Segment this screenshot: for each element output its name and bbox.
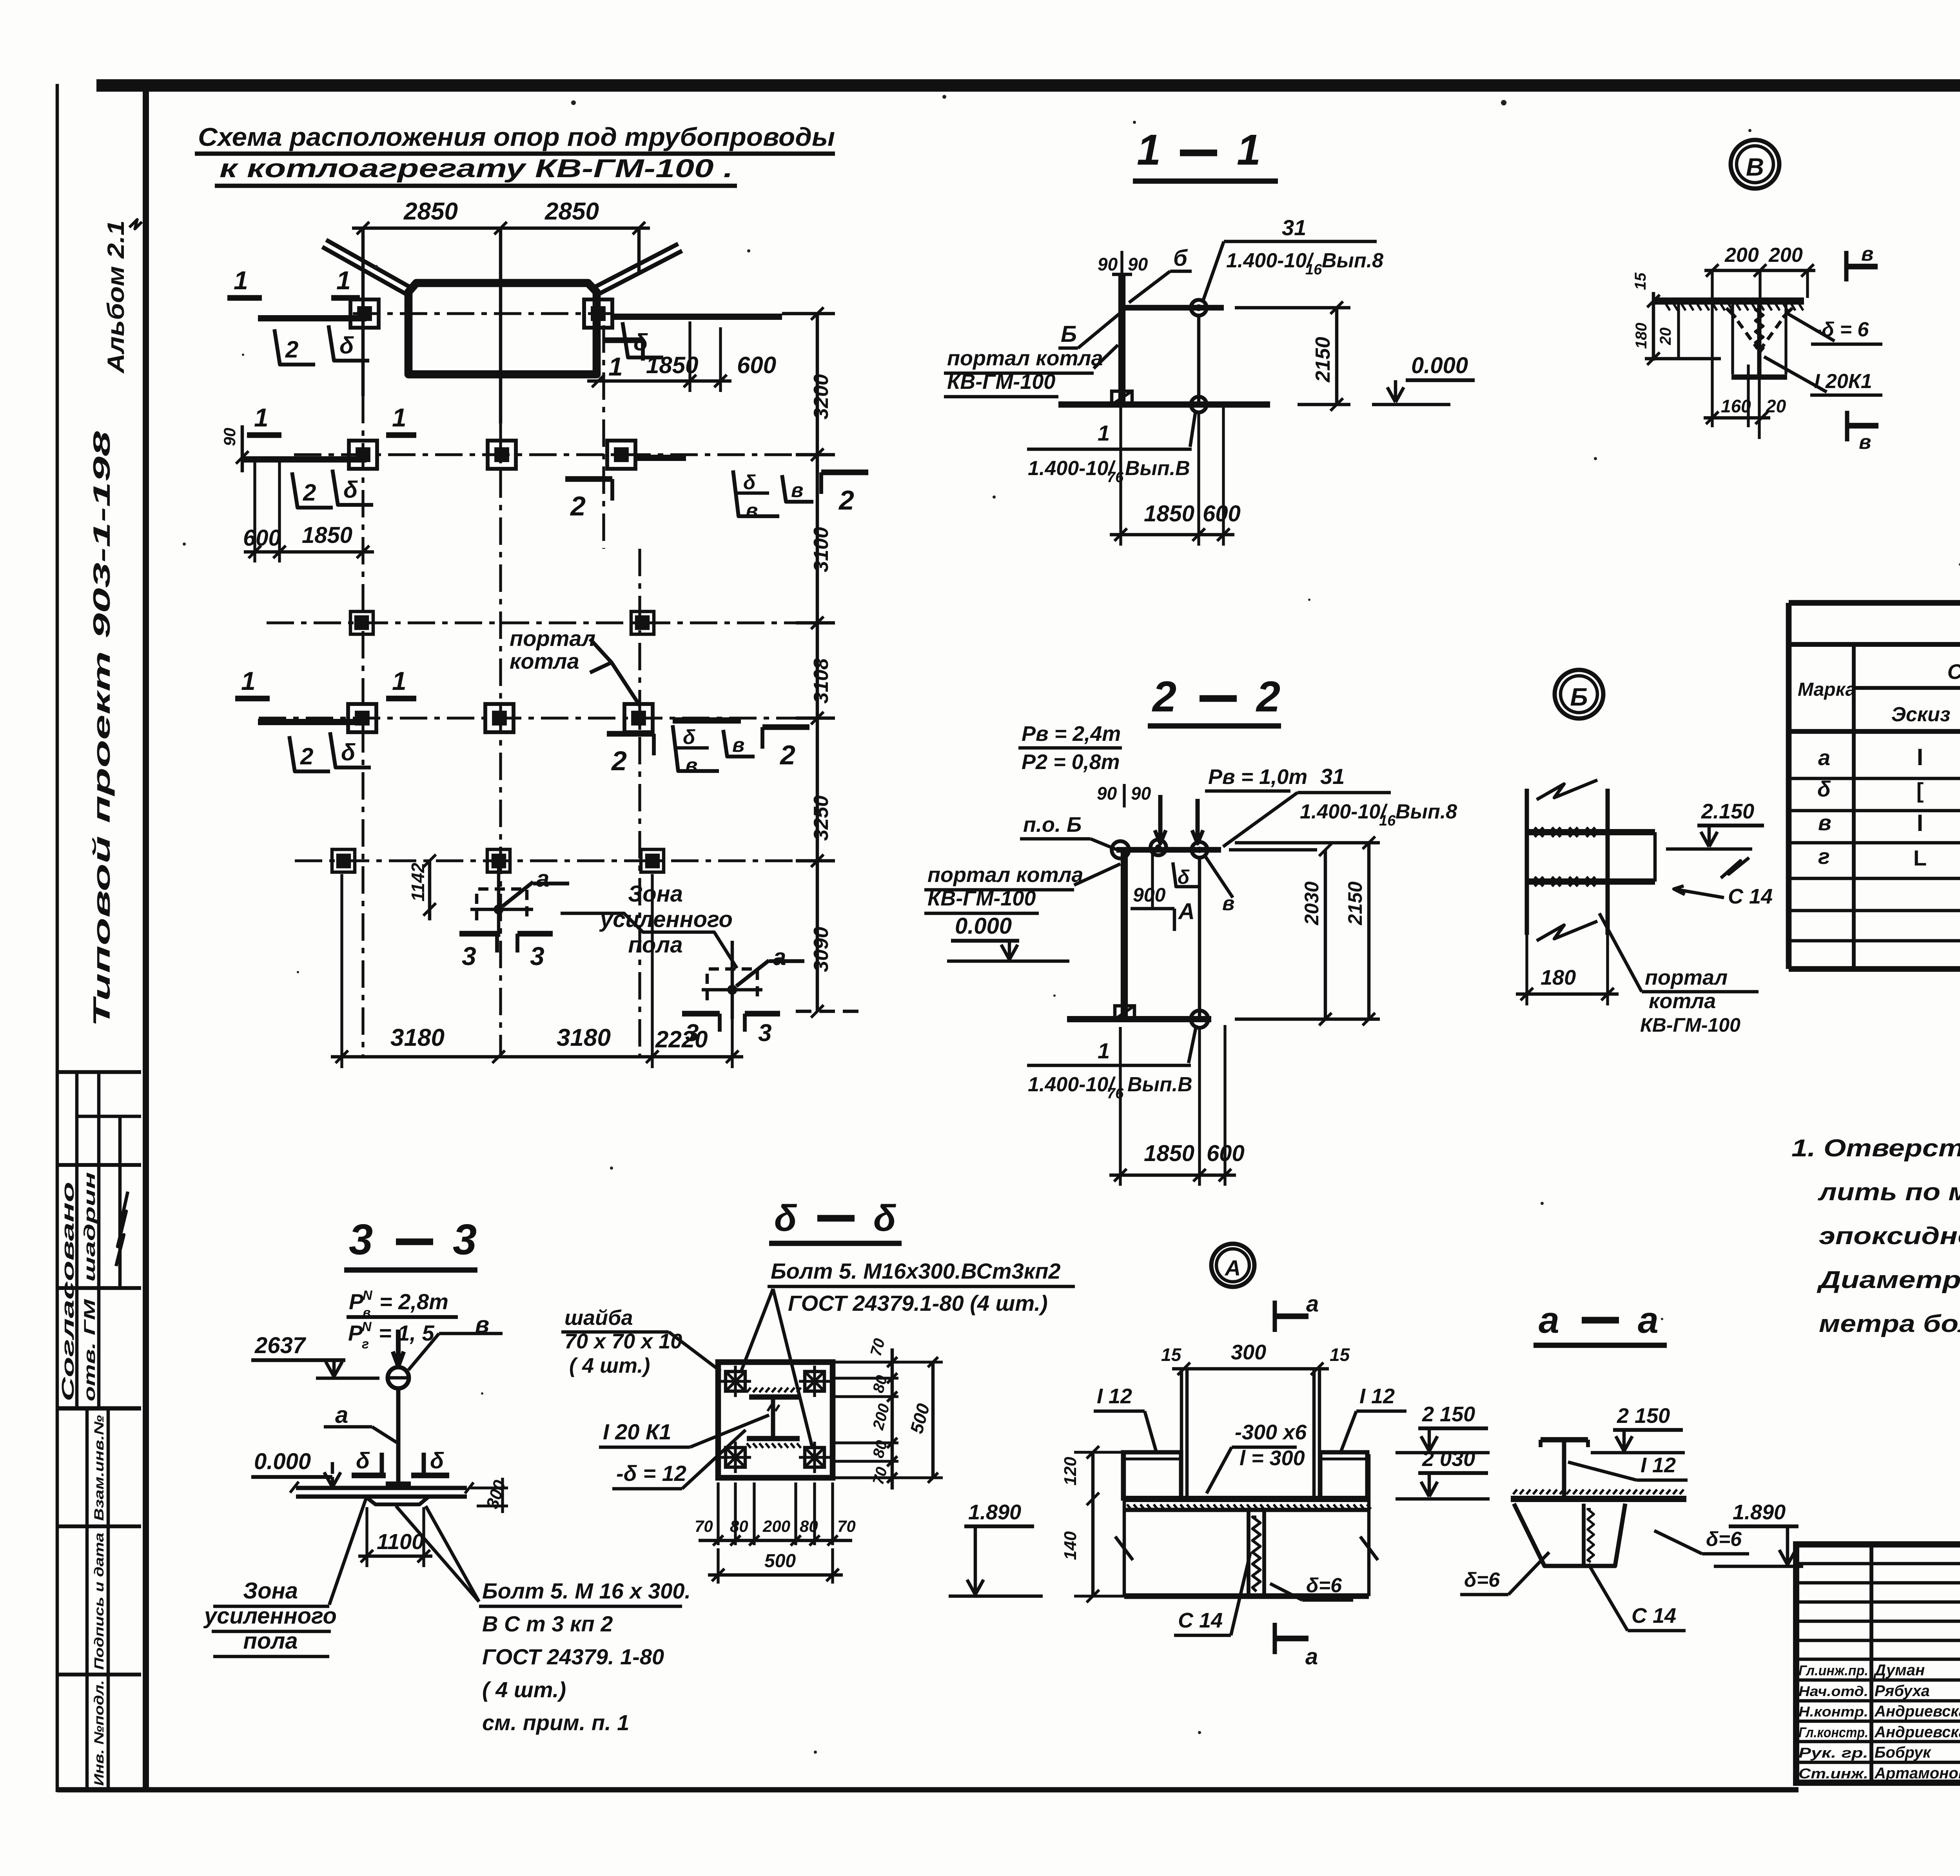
- svg-text:Взам.инв.№: Взам.инв.№: [92, 1415, 107, 1521]
- svg-text:2 030: 2 030: [1422, 1447, 1475, 1471]
- svg-text:в: в: [1861, 243, 1873, 265]
- svg-text:3108: 3108: [810, 658, 833, 704]
- svg-text:2030: 2030: [1301, 882, 1323, 925]
- svg-text:3: 3: [453, 1216, 477, 1264]
- svg-text:2: 2: [300, 743, 313, 769]
- svg-text:90: 90: [220, 428, 239, 446]
- svg-text:Сечение: Сечение: [1947, 660, 1960, 684]
- svg-text:Альбом 2.1: Альбом 2.1: [103, 220, 129, 374]
- svg-text:90: 90: [1128, 254, 1148, 274]
- svg-text:[: [: [1916, 778, 1924, 803]
- svg-text:L: L: [1913, 845, 1927, 870]
- circle A marker: [1211, 1244, 1254, 1287]
- svg-text:Зона: Зона: [243, 1578, 298, 1604]
- svg-text:метра болта, глубина- 15d.: метра болта, глубина- 15d.: [1819, 1310, 1960, 1337]
- svg-text:Марка: Марка: [1798, 679, 1856, 700]
- svg-text:1: 1: [336, 266, 351, 295]
- svg-text:усиленного: усиленного: [599, 907, 733, 932]
- svg-text:Подпись и дата: Подпись и дата: [92, 1533, 106, 1670]
- svg-text:I 12: I 12: [1359, 1384, 1395, 1408]
- svg-text:δ: δ: [356, 1448, 370, 1473]
- svg-text:δ: δ: [343, 477, 358, 503]
- svg-text:= 2,8т: = 2,8т: [379, 1289, 448, 1314]
- svg-text:портал котла: портал котла: [947, 347, 1103, 370]
- svg-text:3: 3: [530, 942, 544, 971]
- svg-text:Н.контр.: Н.контр.: [1798, 1704, 1868, 1720]
- svg-text:в: в: [791, 479, 803, 502]
- plan bottom dimension chain: [331, 874, 743, 1068]
- svg-text:3180: 3180: [390, 1024, 445, 1051]
- svg-text:2150: 2150: [1344, 882, 1366, 925]
- svg-text:Андриевская: Андриевская: [1874, 1724, 1960, 1741]
- svg-text:3200: 3200: [810, 374, 833, 419]
- svg-text:в: в: [1859, 431, 1871, 454]
- svg-text:δ: δ: [339, 332, 354, 359]
- plan column axes + 2850 dims: [352, 198, 650, 1058]
- svg-text:200: 200: [762, 1517, 790, 1535]
- svg-text:2: 2: [779, 740, 795, 770]
- svg-text:шайба: шайба: [564, 1306, 633, 1330]
- section a-a: [1460, 1299, 1803, 1631]
- svg-text:Рв = 2,4т: Рв = 2,4т: [1022, 722, 1121, 746]
- svg-text:1142: 1142: [408, 863, 428, 902]
- svg-text:3180: 3180: [557, 1024, 611, 1051]
- svg-text:Нач.отд.: Нач.отд.: [1798, 1683, 1868, 1699]
- svg-text:δ: δ: [1178, 866, 1190, 888]
- svg-text:Болт 5. М 16 х 300.: Болт 5. М 16 х 300.: [482, 1578, 691, 1603]
- svg-text:I: I: [1917, 744, 1924, 770]
- detail A drawing: [949, 1291, 1490, 1669]
- svg-text:а: а: [773, 944, 786, 970]
- svg-text:180: 180: [1633, 323, 1650, 349]
- svg-text:а: а: [1818, 745, 1830, 770]
- svg-text:1: 1: [234, 266, 248, 295]
- svg-text:Андриевская: Андриевская: [1874, 1703, 1960, 1720]
- svg-text:а: а: [536, 865, 549, 892]
- svg-text:600: 600: [1203, 501, 1241, 526]
- svg-text:А: А: [1224, 1256, 1241, 1280]
- svg-text:Ст.инж.: Ст.инж.: [1798, 1765, 1868, 1782]
- svg-text:Рябуха: Рябуха: [1875, 1682, 1930, 1700]
- svg-text:г: г: [362, 1337, 369, 1352]
- plan row 3 anchors: [267, 611, 817, 634]
- svg-text:2: 2: [611, 746, 627, 776]
- svg-text:Гл.констр.: Гл.констр.: [1798, 1724, 1868, 1740]
- svg-text:70: 70: [837, 1517, 856, 1535]
- svg-text:90: 90: [1097, 783, 1117, 804]
- svg-text:2: 2: [570, 491, 586, 521]
- svg-text:1.400-10/: 1.400-10/: [1300, 800, 1388, 823]
- svg-text:1: 1: [254, 403, 269, 432]
- boiler outline with duct diagonals: [322, 240, 682, 374]
- section 3-3: [203, 1216, 691, 1735]
- svg-text:3: 3: [758, 1020, 771, 1047]
- svg-text:δ: δ: [774, 1197, 797, 1239]
- element list table: [1789, 603, 1960, 969]
- svg-text:1.890: 1.890: [968, 1500, 1021, 1524]
- svg-text:С 14: С 14: [1728, 885, 1773, 908]
- svg-text:δ: δ: [743, 471, 756, 494]
- svg-text:1: 1: [392, 666, 407, 695]
- svg-text:I 20 К1: I 20 К1: [603, 1419, 671, 1444]
- svg-text:600: 600: [1207, 1141, 1245, 1166]
- left margin stamps: [57, 220, 142, 1790]
- svg-text:портал: портал: [510, 626, 595, 651]
- svg-text:Бобрук: Бобрук: [1875, 1744, 1931, 1761]
- svg-text:160: 160: [1721, 396, 1751, 416]
- svg-text:N: N: [362, 1319, 372, 1334]
- svg-text:2: 2: [285, 336, 298, 363]
- circle V marker: [1731, 140, 1779, 189]
- svg-text:( 4 шт.): ( 4 шт.): [482, 1677, 566, 1702]
- svg-text:0.000: 0.000: [1411, 353, 1468, 378]
- svg-text:лить по месту. Устанавливаю: лить по месту. Устанавливаются болты на: [1817, 1179, 1960, 1206]
- svg-text:1100: 1100: [377, 1529, 424, 1554]
- plan row 1 supports: [227, 266, 782, 392]
- svg-text:шадрин: шадрин: [81, 1172, 98, 1282]
- svg-text:ГОСТ 24379. 1-80: ГОСТ 24379. 1-80: [482, 1644, 664, 1669]
- svg-text:Вып.В: Вып.В: [1125, 457, 1190, 480]
- svg-text:г: г: [1818, 844, 1830, 869]
- svg-text:Эскиз: Эскиз: [1891, 703, 1951, 726]
- svg-text:140: 140: [1061, 1531, 1080, 1560]
- svg-text:в: в: [732, 734, 744, 757]
- svg-text:2.150: 2.150: [1701, 800, 1754, 823]
- svg-text:-δ = 12: -δ = 12: [616, 1461, 686, 1486]
- svg-text:2637: 2637: [254, 1333, 307, 1358]
- svg-text:пола: пола: [628, 932, 682, 958]
- svg-text:а: а: [1306, 1291, 1319, 1317]
- svg-text:-300 х6: -300 х6: [1235, 1421, 1307, 1444]
- circle B marker: [1555, 670, 1603, 718]
- svg-text:δ=6: δ=6: [1706, 1528, 1742, 1551]
- svg-text:16: 16: [1305, 261, 1322, 278]
- svg-text:δ=6: δ=6: [1464, 1569, 1500, 1591]
- svg-text:в: в: [1818, 810, 1831, 835]
- svg-text:1850: 1850: [1144, 501, 1194, 526]
- svg-text:3100: 3100: [810, 527, 833, 572]
- svg-text:900: 900: [1133, 884, 1166, 906]
- svg-text:1: 1: [1098, 1038, 1110, 1063]
- svg-text:31: 31: [1320, 764, 1345, 789]
- svg-text:1.400-10/: 1.400-10/: [1028, 457, 1116, 480]
- svg-text:δ: δ: [1817, 777, 1831, 801]
- svg-text:1: 1: [1237, 126, 1261, 174]
- plan right dimension chain: [782, 307, 862, 1018]
- svg-text:l = 300: l = 300: [1240, 1446, 1305, 1470]
- svg-text:90: 90: [1098, 254, 1118, 274]
- svg-text:0.000: 0.000: [955, 913, 1012, 939]
- svg-text:1850: 1850: [1144, 1141, 1194, 1166]
- svg-text:Диаметр отверстия на 6 мм: Диаметр отверстия на 6 мм больше диа-: [1817, 1266, 1960, 1294]
- detail V drawing: [1632, 243, 1882, 454]
- svg-text:Думан: Думан: [1873, 1662, 1925, 1679]
- svg-text:20: 20: [1766, 396, 1786, 416]
- svg-text:отв. ГМ: отв. ГМ: [81, 1298, 98, 1401]
- plan row 2 supports: [220, 403, 868, 562]
- svg-text:= 1, 5: = 1, 5: [379, 1321, 435, 1345]
- svg-text:к котлоагрегату КВ-ГМ-100 .: к котлоагрегату КВ-ГМ-100 .: [220, 154, 733, 183]
- svg-text:δ: δ: [341, 739, 356, 766]
- svg-text:Б: Б: [1061, 321, 1077, 347]
- svg-text:1.890: 1.890: [1733, 1500, 1786, 1524]
- svg-text:а: а: [335, 1402, 348, 1428]
- svg-text:80: 80: [800, 1517, 818, 1535]
- svg-text:1850: 1850: [302, 523, 352, 548]
- svg-text:котла: котла: [510, 649, 579, 673]
- svg-text:В С т 3 кп 2: В С т 3 кп 2: [482, 1611, 613, 1636]
- svg-text:Вып.В: Вып.В: [1127, 1073, 1192, 1096]
- svg-text:600: 600: [243, 525, 281, 551]
- svg-text:2850: 2850: [544, 198, 599, 225]
- svg-text:ГОСТ 24379.1-80 (4 шт.): ГОСТ 24379.1-80 (4 шт.): [788, 1291, 1048, 1315]
- svg-text:N: N: [363, 1288, 373, 1303]
- svg-text:Рук. гр.: Рук. гр.: [1798, 1745, 1868, 1761]
- svg-text:I: I: [1917, 810, 1924, 836]
- svg-text:3090: 3090: [810, 927, 833, 972]
- svg-text:А: А: [1178, 899, 1195, 924]
- svg-text:3250: 3250: [810, 795, 833, 841]
- section 1-1: [944, 126, 1475, 546]
- svg-text:эпоксидном клее в соответст: эпоксидном клее в соответствии с СН471-7…: [1819, 1223, 1960, 1250]
- svg-text:Схема расположения опор под: Схема расположения опор под трубопроводы: [198, 122, 835, 151]
- svg-text:δ: δ: [873, 1197, 897, 1239]
- plan row 4 supports: [235, 666, 817, 777]
- svg-text:600: 600: [737, 352, 776, 378]
- svg-text:80: 80: [730, 1517, 748, 1535]
- svg-text:200: 200: [1768, 244, 1803, 267]
- svg-text:Рв = 1,0т: Рв = 1,0т: [1208, 765, 1307, 789]
- svg-text:2: 2: [838, 485, 854, 515]
- svg-text:Болт 5. М16х300.ВСт3кп2: Болт 5. М16х300.ВСт3кп2: [771, 1259, 1061, 1283]
- svg-text:15: 15: [1330, 1344, 1350, 1365]
- svg-text:а: а: [1305, 1644, 1318, 1669]
- svg-text:Вып.8: Вып.8: [1396, 800, 1457, 823]
- svg-text:90: 90: [1131, 783, 1151, 804]
- svg-text:Р: Р: [348, 1321, 363, 1345]
- svg-text:2: 2: [1152, 673, 1176, 721]
- svg-text:16: 16: [1379, 813, 1396, 829]
- svg-text:70: 70: [695, 1517, 713, 1535]
- svg-text:δ: δ: [683, 726, 695, 749]
- svg-text:1.400-10/: 1.400-10/: [1226, 249, 1314, 272]
- svg-text:Типовой проект 903-1-198: Типовой проект 903-1-198: [89, 431, 115, 1027]
- svg-text:3: 3: [462, 942, 476, 971]
- svg-text:15: 15: [1632, 272, 1649, 290]
- svg-text:500: 500: [764, 1551, 796, 1571]
- svg-text:Согласовано: Согласовано: [58, 1182, 78, 1401]
- svg-text:портал: портал: [1645, 966, 1728, 989]
- title block: [1796, 1544, 1960, 1824]
- svg-text:300: 300: [1231, 1341, 1266, 1364]
- svg-text:I 12: I 12: [1097, 1384, 1132, 1408]
- reinforced floor zone: [408, 855, 804, 1047]
- detail B drawing: [1516, 780, 1773, 1036]
- svg-text:200: 200: [1724, 244, 1759, 267]
- svg-text:( 4 шт.): ( 4 шт.): [569, 1354, 650, 1377]
- svg-text:2 150: 2 150: [1422, 1402, 1475, 1426]
- svg-text:120: 120: [1061, 1457, 1080, 1486]
- delta-delta detail: [561, 1197, 1075, 1584]
- svg-text:Р: Р: [349, 1289, 364, 1314]
- svg-text:Гл.инж.пр.: Гл.инж.пр.: [1798, 1662, 1868, 1678]
- svg-text:С 14: С 14: [1632, 1604, 1676, 1627]
- plan row 5 anchors: [295, 849, 827, 872]
- svg-text:1.400-10/: 1.400-10/: [1028, 1073, 1116, 1096]
- svg-text:15: 15: [1161, 1344, 1182, 1365]
- svg-text:п.о. Б: п.о. Б: [1023, 813, 1082, 836]
- svg-text:Зона: Зона: [628, 881, 683, 907]
- svg-text:31: 31: [1282, 215, 1306, 240]
- svg-text:δ: δ: [430, 1448, 444, 1473]
- notes text: [1791, 1135, 1960, 1337]
- svg-text:1. Отверстия в усиленном по: 1. Отверстия в усиленном полу под болты …: [1791, 1135, 1960, 1162]
- svg-text:в: в: [746, 499, 758, 522]
- svg-text:2: 2: [1256, 673, 1280, 721]
- svg-text:-δ = 6: -δ = 6: [1815, 318, 1869, 341]
- svg-text:в: в: [685, 754, 697, 777]
- svg-text:2 150: 2 150: [1617, 1404, 1670, 1428]
- svg-text:1: 1: [392, 403, 407, 432]
- svg-text:б: б: [1173, 245, 1188, 271]
- svg-text:1: 1: [1137, 126, 1161, 174]
- svg-text:а: а: [1638, 1299, 1659, 1341]
- svg-text:В: В: [1746, 153, 1764, 181]
- svg-text:I 12: I 12: [1641, 1453, 1676, 1477]
- svg-text:а: а: [1539, 1299, 1559, 1341]
- svg-text:Артамонова: Артамонова: [1874, 1765, 1960, 1782]
- svg-text:20: 20: [1657, 328, 1674, 346]
- svg-text:2150: 2150: [1312, 337, 1334, 383]
- svg-text:2: 2: [303, 479, 316, 506]
- svg-text:С 14: С 14: [1178, 1609, 1223, 1632]
- svg-text:3: 3: [349, 1216, 373, 1264]
- svg-text:Р2 = 0,8т: Р2 = 0,8т: [1022, 750, 1120, 774]
- svg-text:I 20К1: I 20К1: [1814, 370, 1872, 393]
- section 2-2: [924, 673, 1457, 1186]
- svg-text:Вып.8: Вып.8: [1322, 249, 1383, 272]
- svg-text:Б: Б: [1570, 683, 1588, 711]
- svg-text:δ=6: δ=6: [1306, 1574, 1342, 1597]
- svg-text:0.000: 0.000: [254, 1449, 311, 1474]
- svg-text:2850: 2850: [403, 198, 458, 225]
- svg-text:портал котла: портал котла: [927, 863, 1083, 887]
- svg-text:Инв. №подл.: Инв. №подл.: [92, 1680, 107, 1786]
- svg-text:КВ-ГМ-100: КВ-ГМ-100: [1640, 1014, 1740, 1036]
- svg-text:1: 1: [608, 352, 623, 381]
- drawing title: [195, 122, 835, 186]
- svg-text:см. прим. п. 1: см. прим. п. 1: [482, 1710, 629, 1735]
- svg-text:2220: 2220: [655, 1026, 708, 1052]
- svg-text:1: 1: [1098, 421, 1110, 445]
- svg-text:1: 1: [241, 666, 256, 695]
- portal kotla label: [510, 626, 640, 706]
- svg-text:180: 180: [1541, 966, 1576, 989]
